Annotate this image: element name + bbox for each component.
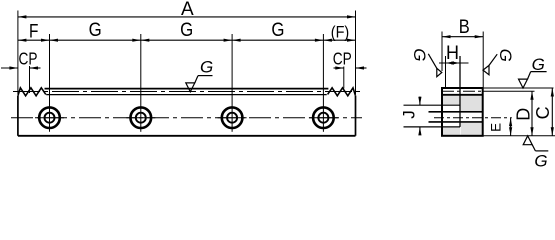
- svg-text:CP: CP: [19, 49, 38, 69]
- svg-text:CP: CP: [333, 48, 352, 68]
- svg-text:H: H: [446, 43, 459, 64]
- svg-text:B: B: [459, 17, 470, 38]
- svg-text:G: G: [496, 49, 515, 62]
- svg-text:J: J: [400, 110, 419, 119]
- svg-text:A: A: [181, 0, 194, 20]
- svg-text:G: G: [89, 20, 102, 41]
- svg-text:G: G: [271, 20, 284, 41]
- svg-text:E: E: [489, 123, 504, 132]
- svg-text:(F): (F): [331, 23, 350, 42]
- svg-text:G: G: [180, 20, 193, 41]
- svg-text:F: F: [29, 22, 38, 43]
- svg-text:D: D: [513, 108, 533, 121]
- svg-text:G: G: [532, 55, 545, 74]
- svg-text:G: G: [534, 151, 547, 170]
- svg-text:C: C: [533, 106, 553, 119]
- svg-text:G: G: [200, 58, 213, 77]
- svg-text:G: G: [410, 48, 429, 61]
